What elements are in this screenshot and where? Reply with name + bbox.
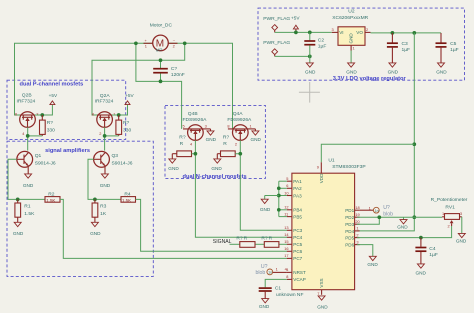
svg-text:1: 1 xyxy=(93,154,95,159)
ground (Q4A source) xyxy=(247,129,261,142)
svg-text:C1: C1 xyxy=(275,285,282,291)
svg-text:NRST: NRST xyxy=(293,270,306,275)
svg-text:U1: U1 xyxy=(328,157,335,163)
svg-text:1µF: 1µF xyxy=(429,252,438,258)
svg-text:3: 3 xyxy=(36,111,38,116)
svg-text:GND: GND xyxy=(13,231,24,236)
resistor R? R (gate series 1) xyxy=(236,235,255,247)
svg-text:U?: U? xyxy=(383,205,390,211)
svg-text:12: 12 xyxy=(284,205,288,210)
junction motor left xyxy=(134,41,138,45)
svg-text:1µF: 1µF xyxy=(318,43,327,49)
svg-text:C?: C? xyxy=(171,66,178,72)
wire 3.3V output rail xyxy=(371,32,442,34)
svg-text:XC6206PxxxMR: XC6206PxxxMR xyxy=(332,15,368,21)
pin VCAP xyxy=(286,274,306,282)
pin PD1 xyxy=(345,205,360,213)
svg-text:M?: M? xyxy=(156,48,163,54)
junction Q2B gate xyxy=(26,134,30,138)
pin PC3 xyxy=(284,225,302,233)
transistor Q2B IRF7324 (P-mosfet) xyxy=(15,93,38,136)
resistor R gate pulldown (Q4B) xyxy=(172,134,191,159)
svg-text:1: 1 xyxy=(442,211,444,216)
svg-text:GND: GND xyxy=(100,183,111,188)
svg-text:15: 15 xyxy=(284,239,288,244)
ferrite blob U? (NRST) xyxy=(256,264,288,276)
svg-text:S9014-J6: S9014-J6 xyxy=(35,161,56,167)
svg-text:blob: blob xyxy=(383,211,393,217)
pin PC5 xyxy=(284,239,302,247)
pin NRST xyxy=(286,267,306,275)
section box: dual N-channel mosfets xyxy=(165,105,265,178)
resistor R gate pulldown (Q4A) xyxy=(217,134,235,159)
svg-text:GND: GND xyxy=(211,166,222,171)
svg-text:5: 5 xyxy=(286,176,288,181)
pin PD2 xyxy=(345,212,360,220)
ground (C4) xyxy=(416,264,427,276)
svg-text:+5V: +5V xyxy=(125,93,134,98)
ground (Q3 emitter) xyxy=(100,174,111,188)
wire Q3 base to divider node xyxy=(88,159,121,199)
pin PA3 xyxy=(284,190,302,198)
svg-text:GND: GND xyxy=(349,33,354,44)
transistor Q3 S9014-J6 xyxy=(93,151,132,167)
svg-text:1µF: 1µF xyxy=(402,47,411,53)
capacitor C4 1uF xyxy=(415,238,437,264)
svg-text:PC4: PC4 xyxy=(293,235,302,240)
svg-text:2: 2 xyxy=(356,232,358,237)
capacitor C2 1uF xyxy=(304,32,326,63)
svg-text:Motor_DC: Motor_DC xyxy=(150,23,173,29)
resistor R2 1.5K xyxy=(45,191,60,203)
svg-text:1: 1 xyxy=(113,111,115,116)
junction motor right xyxy=(183,41,187,45)
svg-text:1n: 1n xyxy=(268,271,272,275)
svg-text:1K: 1K xyxy=(100,211,107,217)
cursor crosshair xyxy=(299,82,320,103)
svg-text:PC6: PC6 xyxy=(293,249,302,254)
svg-text:GND: GND xyxy=(397,224,408,229)
wire Q2B source to +5V and R7 xyxy=(35,105,53,115)
transistor Q1 S9014-J6 xyxy=(17,151,56,167)
pin PA2 xyxy=(286,183,302,191)
svg-text:2: 2 xyxy=(173,43,175,48)
pin PC7 xyxy=(284,253,302,261)
svg-text:1.5K: 1.5K xyxy=(24,211,35,217)
wire C7 bottom to Q4B drain xyxy=(161,73,182,128)
wire motor left rail xyxy=(15,43,153,115)
svg-text:8: 8 xyxy=(92,111,94,116)
svg-text:1.5K: 1.5K xyxy=(46,198,55,203)
resistor R? R (gate series 2) xyxy=(261,235,279,247)
svg-text:+5V: +5V xyxy=(49,93,58,98)
svg-text:GND: GND xyxy=(23,183,34,188)
svg-text:PWR_FLAG: PWR_FLAG xyxy=(263,16,290,22)
svg-text:7: 7 xyxy=(317,291,319,296)
power +5V (regulator input) xyxy=(291,16,300,33)
wire 3.3V vertical rail to VDD and PD4 xyxy=(357,33,414,231)
svg-text:1: 1 xyxy=(369,205,371,210)
junction R7A top xyxy=(117,113,121,117)
capacitor C7 120nF xyxy=(153,66,185,78)
svg-text:6: 6 xyxy=(286,183,288,188)
svg-text:1: 1 xyxy=(356,226,358,231)
svg-text:Q2A: Q2A xyxy=(100,93,111,99)
svg-text:2: 2 xyxy=(99,131,101,136)
svg-text:1µF: 1µF xyxy=(450,47,459,53)
svg-text:Q4A: Q4A xyxy=(233,111,244,117)
wire PWR_FLAG to C2 bottom xyxy=(275,55,310,57)
svg-text:dual P-channel mosfets: dual P-channel mosfets xyxy=(20,81,84,87)
svg-text:R3: R3 xyxy=(100,203,107,209)
ground (R3) xyxy=(90,222,101,236)
junction C7 top xyxy=(159,58,163,62)
resistor R7B 330 xyxy=(40,115,56,136)
svg-text:VI: VI xyxy=(339,30,343,35)
svg-text:VCAP: VCAP xyxy=(293,277,306,282)
svg-text:R? R: R? R xyxy=(261,235,272,241)
ground (C1) xyxy=(259,299,270,310)
capacitor C5 1uF xyxy=(436,33,459,63)
wire RV1 pin3 to GND xyxy=(461,217,463,234)
wire Q2A source to +5V and R7 xyxy=(112,105,128,115)
svg-text:dual N-channel mosfets: dual N-channel mosfets xyxy=(183,174,247,180)
svg-text:IRF7324: IRF7324 xyxy=(95,99,114,105)
svg-text:1: 1 xyxy=(276,267,278,272)
svg-text:R_Potentiometer: R_Potentiometer xyxy=(431,197,468,203)
junction R1 top xyxy=(16,198,20,202)
wire VCAP to C1 xyxy=(265,279,287,287)
svg-text:signal amplifiers: signal amplifiers xyxy=(45,148,90,154)
svg-text:Q1: Q1 xyxy=(35,153,42,159)
svg-text:6: 6 xyxy=(15,111,17,116)
pin PC6 xyxy=(284,246,302,254)
pin PC4 xyxy=(284,232,302,240)
svg-text:+5V: +5V xyxy=(291,16,300,21)
svg-text:3: 3 xyxy=(332,27,334,32)
svg-text:330: 330 xyxy=(47,128,55,134)
ground (U2) xyxy=(346,63,357,75)
ground (C3) xyxy=(388,63,399,75)
ground (R1) xyxy=(13,222,24,236)
wire Q4A gate to PC3 xyxy=(239,140,241,153)
svg-text:FDS9926A: FDS9926A xyxy=(227,117,252,123)
pin PD6 xyxy=(345,239,359,247)
svg-text:GND: GND xyxy=(168,166,179,171)
svg-text:GND: GND xyxy=(90,231,101,236)
svg-text:PD1: PD1 xyxy=(345,208,354,213)
svg-text:8: 8 xyxy=(286,274,288,279)
svg-text:IRF7324: IRF7324 xyxy=(17,98,36,104)
svg-text:C3: C3 xyxy=(402,41,409,47)
svg-text:GND: GND xyxy=(260,207,271,212)
junction R7B top xyxy=(40,113,44,117)
svg-text:R?: R? xyxy=(223,134,230,140)
svg-text:C2: C2 xyxy=(318,37,325,43)
svg-text:18: 18 xyxy=(355,205,359,210)
resistor R4 1.5K xyxy=(121,191,136,203)
svg-text:GND: GND xyxy=(317,305,328,310)
wire Q4B gate to PC4 xyxy=(194,140,196,153)
svg-text:R: R xyxy=(180,141,184,147)
transistor Q4A FDS9926A (N-mosfet) xyxy=(227,111,252,147)
svg-text:2: 2 xyxy=(366,27,368,32)
pin PD4 xyxy=(345,226,359,234)
wire C7 top stub xyxy=(160,60,162,68)
IC U1 STM8S003F3P xyxy=(292,157,366,296)
svg-text:PD5: PD5 xyxy=(345,236,354,241)
svg-text:9: 9 xyxy=(317,164,319,169)
svg-text:1: 1 xyxy=(353,46,355,51)
svg-text:Q3: Q3 xyxy=(112,153,119,159)
svg-text:GND: GND xyxy=(259,304,270,309)
section box: 3.3V LDO voltage regulator xyxy=(258,8,465,80)
svg-text:R1: R1 xyxy=(24,203,31,209)
IC U2 XC6206PxxxMR xyxy=(332,9,371,63)
ground (PD6) xyxy=(367,256,378,267)
wire Q2A gate node xyxy=(105,135,119,137)
wire R2 to PC7 xyxy=(60,199,287,258)
wire motor right branch down to snubber rail xyxy=(92,43,185,115)
svg-text:R: R xyxy=(223,141,227,147)
svg-text:11: 11 xyxy=(284,211,288,216)
resistor R1 1.5K xyxy=(15,199,35,222)
ground (Q4B source) xyxy=(203,129,217,142)
svg-text:GND: GND xyxy=(251,137,262,142)
wire R4 to PC6 xyxy=(136,199,288,251)
svg-text:VO: VO xyxy=(356,30,363,35)
svg-text:GND: GND xyxy=(305,70,316,75)
svg-text:16: 16 xyxy=(284,246,288,251)
svg-text:1.5K: 1.5K xyxy=(122,198,131,203)
svg-text:120nF: 120nF xyxy=(171,72,185,78)
wire Q2B gate node xyxy=(28,135,43,137)
svg-text:PD6: PD6 xyxy=(345,243,354,248)
svg-text:GND: GND xyxy=(436,70,447,75)
wire Q3 emitter to GND xyxy=(104,166,106,174)
svg-text:3: 3 xyxy=(460,211,462,216)
svg-text:Q2B: Q2B xyxy=(22,93,32,99)
transistor Q4B FDS9926A (N-mosfet) xyxy=(183,111,208,147)
ground (RV1 pin3) xyxy=(456,233,467,243)
transistor Q2A IRF7324 (P-mosfet) xyxy=(92,93,116,136)
wire Q1 base to divider node xyxy=(8,159,45,199)
ground (VSS) xyxy=(317,296,328,310)
svg-text:Q4B: Q4B xyxy=(188,111,198,117)
wire VDD feed xyxy=(321,144,414,162)
wire Q1 emitter to GND xyxy=(27,166,29,174)
ferrite blob U? (PD1) xyxy=(360,205,394,217)
svg-text:C5: C5 xyxy=(450,41,457,47)
wire PD6 to GND xyxy=(357,245,373,257)
svg-text:GND: GND xyxy=(367,262,378,267)
junction Q4A gate xyxy=(238,152,242,156)
svg-text:S9014-J6: S9014-J6 xyxy=(112,161,133,167)
resistor R3 1K xyxy=(92,199,107,222)
svg-text:R? R: R? R xyxy=(236,235,247,241)
svg-text:PA1: PA1 xyxy=(293,179,302,184)
junction R3 top xyxy=(93,198,97,202)
svg-text:1: 1 xyxy=(17,154,19,159)
svg-text:1n: 1n xyxy=(375,209,379,213)
ground (PA pins) xyxy=(260,199,271,212)
pin PB4 xyxy=(284,205,302,213)
svg-text:R?: R? xyxy=(47,120,54,126)
section box: dual P-channel mosfets xyxy=(7,80,126,139)
pin PA1 xyxy=(286,176,302,184)
motor M? Motor_DC xyxy=(144,23,178,54)
svg-text:GND: GND xyxy=(388,70,399,75)
svg-text:PC3: PC3 xyxy=(293,228,302,233)
svg-text:2: 2 xyxy=(235,141,237,146)
power flag PWR_FLAG (+5V) xyxy=(263,16,290,33)
capacitor C1 unknown NF xyxy=(259,285,304,298)
svg-text:PA2: PA2 xyxy=(293,186,302,191)
svg-text:2: 2 xyxy=(448,224,450,229)
svg-text:3: 3 xyxy=(205,124,207,129)
pin PD5 xyxy=(345,232,359,240)
wire motor right to Q4A drain xyxy=(168,43,232,129)
svg-text:17: 17 xyxy=(284,253,288,258)
svg-text:VDD: VDD xyxy=(319,173,324,183)
svg-text:RV1: RV1 xyxy=(445,205,455,211)
svg-text:R?: R? xyxy=(123,120,130,126)
svg-text:SIGNAL: SIGNAL xyxy=(213,239,232,245)
svg-text:STM8S003F3P: STM8S003F3P xyxy=(332,164,365,170)
svg-text:13: 13 xyxy=(284,225,288,230)
wire PA1/PA2/PA3/PB4/PB5 tie xyxy=(265,181,287,216)
resistor R7A 330 xyxy=(116,115,132,136)
junction Q2A gate xyxy=(103,134,107,138)
svg-text:PB4: PB4 xyxy=(293,208,302,213)
svg-text:GND: GND xyxy=(416,271,427,276)
junction Q4B gate xyxy=(194,152,198,156)
svg-text:GND: GND xyxy=(346,70,357,75)
svg-text:PWR_FLAG: PWR_FLAG xyxy=(263,40,290,46)
svg-text:U2: U2 xyxy=(348,9,355,15)
svg-text:19: 19 xyxy=(355,212,359,217)
svg-text:1: 1 xyxy=(250,124,252,129)
svg-text:PD3: PD3 xyxy=(345,222,354,227)
wire PD2/PD3 to RV1 wiper rail xyxy=(357,215,442,224)
ground (C2) xyxy=(305,63,316,75)
svg-text:PC5: PC5 xyxy=(293,242,302,247)
svg-text:3.3V LDO voltage regulator: 3.3V LDO voltage regulator xyxy=(333,76,407,82)
power flag PWR_FLAG (GND) xyxy=(263,40,290,57)
ground (Q4B pulldown) xyxy=(168,159,179,171)
wire motor left terminal down to snubber bottom rail xyxy=(136,43,161,81)
pin PD3 xyxy=(345,219,360,227)
svg-text:PD4: PD4 xyxy=(345,229,354,234)
wire SIGNAL to series resistors to PC5 xyxy=(230,243,240,245)
svg-text:R?: R? xyxy=(179,134,186,140)
wire +5V rail into regulator xyxy=(275,31,332,33)
ground (pot low side) xyxy=(397,220,408,230)
section box: signal amplifiers xyxy=(7,141,153,276)
svg-text:GND: GND xyxy=(206,137,217,142)
svg-text:PA3: PA3 xyxy=(293,193,302,198)
svg-text:blob: blob xyxy=(256,270,266,276)
junction C7 bottom xyxy=(159,80,163,84)
svg-text:PD2: PD2 xyxy=(345,215,354,220)
pin PB5 xyxy=(284,211,302,219)
svg-text:330: 330 xyxy=(123,128,131,134)
wire RV1 wiper to PD5 xyxy=(357,226,452,238)
svg-text:FDS9926A: FDS9926A xyxy=(183,117,208,123)
svg-text:3: 3 xyxy=(356,239,358,244)
svg-text:C4: C4 xyxy=(429,246,436,252)
power +5V (Q2A) xyxy=(125,93,135,105)
svg-text:unknown NF: unknown NF xyxy=(276,292,303,298)
svg-text:PB5: PB5 xyxy=(293,214,302,219)
svg-text:PC7: PC7 xyxy=(293,256,302,261)
svg-text:5: 5 xyxy=(183,124,185,129)
capacitor C3 1uF xyxy=(387,33,410,63)
power +5V (Q2B) xyxy=(49,93,58,105)
potentiometer RV1 R_Potentiometer xyxy=(431,197,468,228)
svg-text:1: 1 xyxy=(145,43,147,48)
svg-text:GND: GND xyxy=(456,239,467,244)
ground (Q1 emitter) xyxy=(23,174,34,188)
ground (C5) xyxy=(436,63,447,75)
svg-text:8: 8 xyxy=(227,124,229,129)
svg-text:VSS: VSS xyxy=(319,278,324,287)
ground (Q4A pulldown) xyxy=(211,159,222,171)
